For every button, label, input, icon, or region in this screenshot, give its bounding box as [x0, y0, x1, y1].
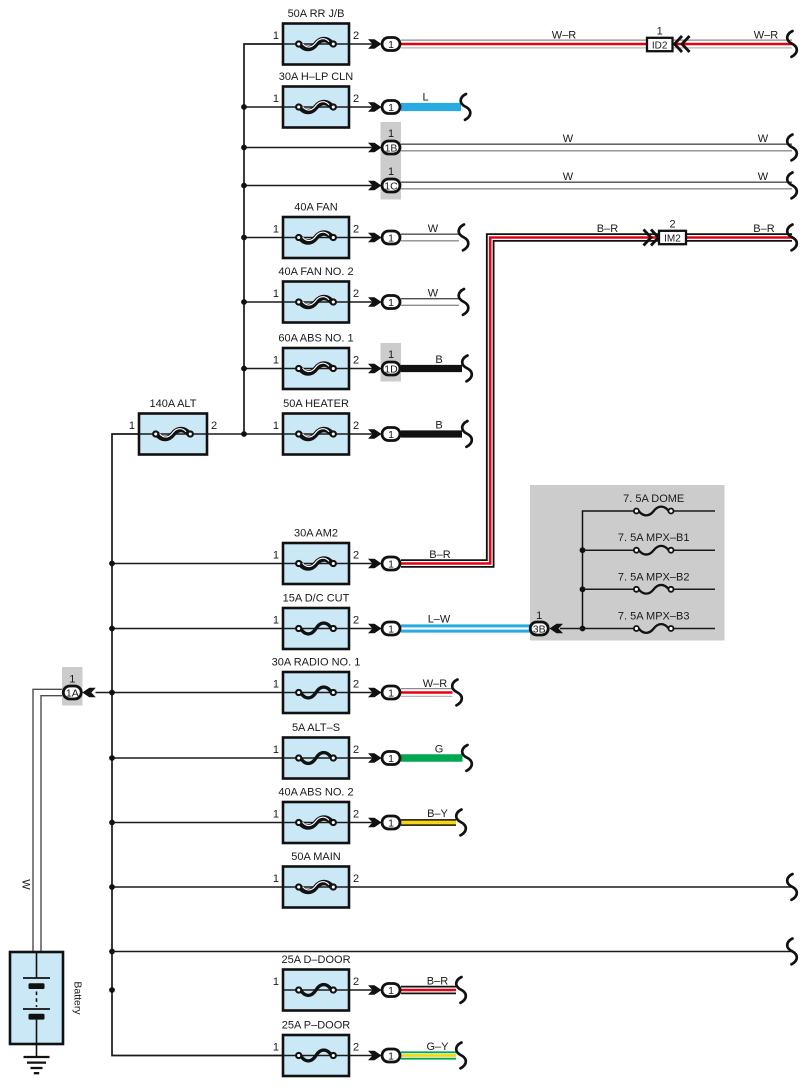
wire 40A FAN pin2 to output connector — [349, 237, 379, 239]
arrow into connector 1 (RADIO) — [368, 688, 382, 698]
arrow into connector 1 (FAN) — [368, 233, 382, 243]
fuse 60A ABS NO. 1 — [273, 333, 359, 390]
wire G-Y P-DOOR output — [401, 1051, 456, 1059]
wire break W-R end — [787, 31, 797, 57]
wire feed connector 1C — [244, 185, 379, 187]
svg-text:W: W — [758, 171, 769, 183]
wire feed 30A AM2 — [112, 563, 283, 565]
connector 1 (ABS NO. 2) — [382, 816, 400, 829]
svg-text:2: 2 — [353, 30, 359, 42]
wire 25A D-DOOR pin2 to output connector — [349, 989, 379, 991]
gray band behind connector 1D — [381, 343, 402, 382]
arrow into connector 1 (D-DOOR) — [368, 985, 382, 995]
svg-text:2: 2 — [353, 873, 359, 885]
svg-text:2: 2 — [353, 420, 359, 432]
svg-text:30A RADIO NO. 1: 30A RADIO NO. 1 — [272, 657, 361, 669]
wire bus A (fusible link feed, top) — [244, 44, 283, 434]
svg-text:1D: 1D — [384, 363, 398, 375]
wire through fuse 7. 5A MPX–B1 — [674, 549, 716, 551]
arrow into connector 1A — [82, 688, 96, 698]
chevrons into IM2 — [644, 230, 659, 246]
wire B-R D-DOOR output — [401, 986, 456, 995]
svg-text:1: 1 — [273, 744, 279, 756]
junction on bus B — [109, 626, 115, 632]
wire W-R RADIO output — [401, 688, 453, 690]
arrow into connector 1D — [368, 364, 382, 374]
svg-text:140A ALT: 140A ALT — [150, 398, 197, 410]
chevrons out of ID2 — [675, 36, 690, 52]
wire break W end (FAN) — [459, 225, 469, 251]
svg-text:1A: 1A — [66, 687, 79, 699]
junction on bus B — [109, 949, 115, 955]
arrow into connector 1 (AM2) — [368, 559, 382, 569]
arrow into connector 1 (H-LP CLN) — [368, 102, 382, 112]
svg-text:1: 1 — [273, 288, 279, 300]
connector 1 (D-DOOR) — [382, 984, 400, 997]
wire through fuse 7. 5A MPX–B2 — [674, 588, 716, 590]
wire break B-R end (D-DOOR) — [456, 977, 466, 1003]
wire break branch end — [787, 939, 797, 965]
wire 30A RADIO NO. 1 pin2 to output connector — [349, 692, 379, 694]
junction on bus A — [241, 431, 247, 437]
fuse 25A P-DOOR — [273, 1020, 359, 1077]
wire break W end (1C row) — [787, 173, 797, 199]
junction on bus B — [109, 884, 115, 890]
svg-text:50A MAIN: 50A MAIN — [291, 851, 341, 863]
wire break B end (HEATER) — [462, 421, 472, 447]
junction on bus B — [109, 755, 115, 761]
wire B ABS NO. 1 output — [401, 365, 462, 372]
svg-text:1: 1 — [388, 166, 394, 178]
wire break W end (1B row) — [787, 135, 797, 161]
arrow into connector 1 (ALT-S) — [368, 753, 382, 763]
connector IM2 — [659, 231, 686, 245]
fuse 7. 5A MPX–B1 — [618, 532, 690, 554]
connector 1 (AM2) — [382, 557, 400, 570]
svg-text:2: 2 — [211, 420, 217, 432]
wire branch to 7. 5A MPX–B3 — [583, 628, 636, 630]
svg-text:G–Y: G–Y — [426, 1041, 449, 1053]
svg-text:1: 1 — [388, 817, 394, 829]
svg-text:L–W: L–W — [428, 614, 451, 626]
junction on bus A — [241, 299, 247, 305]
svg-text:1: 1 — [273, 93, 279, 105]
junction on bus B — [109, 690, 115, 696]
wire 25A P-DOOR pin2 to output connector — [349, 1055, 379, 1057]
svg-text:1: 1 — [388, 1050, 394, 1062]
svg-text:15A D/C CUT: 15A D/C CUT — [283, 593, 350, 605]
arrow into connector 1 (ABS NO. 2) — [368, 818, 382, 828]
svg-text:40A FAN NO. 2: 40A FAN NO. 2 — [278, 266, 353, 278]
svg-text:W: W — [428, 223, 439, 235]
wire feed 50A MAIN — [112, 886, 283, 888]
svg-text:IM2: IM2 — [664, 234, 681, 245]
connector 1 (P-DOOR) — [382, 1049, 400, 1062]
svg-text:1: 1 — [388, 753, 394, 765]
connector ID2 — [647, 38, 673, 52]
connector 3B — [530, 622, 548, 635]
wire break W end (FAN NO. 2) — [459, 289, 469, 315]
fuse 30A H-LP CLN — [273, 71, 359, 128]
arrow into connector 1 (FAN NO. 2) — [368, 297, 382, 307]
svg-text:2: 2 — [353, 744, 359, 756]
wire break MAIN output end — [787, 874, 797, 900]
svg-text:1: 1 — [273, 679, 279, 691]
wire 50A MAIN output (plain) — [349, 886, 792, 888]
connector 1 (RADIO) — [382, 686, 400, 699]
connector 1 (HEATER) — [382, 428, 400, 441]
fuse 7. 5A MPX–B2 — [618, 571, 690, 593]
svg-text:1: 1 — [388, 232, 394, 244]
wire battery branch (plain, to right) — [112, 951, 792, 953]
svg-text:50A HEATER: 50A HEATER — [283, 398, 349, 410]
connector 1 (H-LP CLN) — [382, 101, 400, 114]
wire feed 30A H-LP CLN — [244, 106, 283, 108]
wire feed 30A RADIO NO. 1 and connector 1A — [96, 692, 284, 694]
svg-text:3B: 3B — [533, 623, 546, 635]
svg-text:40A ABS NO. 2: 40A ABS NO. 2 — [278, 787, 353, 799]
wire feed 15A D/C CUT — [112, 628, 283, 630]
fuse 15A D/C CUT — [273, 593, 359, 650]
connector 1B — [382, 141, 400, 154]
svg-text:W–R: W–R — [423, 678, 448, 690]
svg-text:1: 1 — [388, 297, 394, 309]
junction on bus B — [109, 987, 115, 993]
svg-text:ID2: ID2 — [652, 41, 668, 52]
svg-text:W–R: W–R — [552, 30, 577, 42]
svg-text:40A FAN: 40A FAN — [294, 202, 337, 214]
fuse 50A RR J/B — [273, 8, 359, 65]
svg-text:1: 1 — [388, 985, 394, 997]
wire 40A FAN NO. 2 pin2 to output connector — [349, 301, 379, 303]
wire 60A ABS NO. 1 pin2 to output connector — [349, 368, 379, 370]
svg-text:Battery: Battery — [72, 981, 84, 1015]
wire feed 60A ABS NO. 1 — [244, 368, 283, 370]
wire feed 5A ALT-S — [112, 757, 283, 759]
svg-text:W–R: W–R — [754, 30, 779, 42]
wire feed connector 1B — [244, 147, 379, 149]
connector 1D — [382, 362, 400, 375]
svg-text:1C: 1C — [384, 180, 398, 192]
svg-text:2: 2 — [353, 615, 359, 627]
fuse 50A HEATER — [273, 398, 359, 455]
fuse 50A MAIN — [273, 851, 359, 908]
connector 1 (ALT-S) — [382, 752, 400, 765]
svg-text:L: L — [422, 92, 428, 104]
svg-text:1: 1 — [388, 39, 394, 51]
svg-text:1: 1 — [273, 1042, 279, 1054]
svg-text:1: 1 — [388, 429, 394, 441]
svg-text:B–R: B–R — [427, 976, 448, 988]
junction in junction block — [580, 586, 586, 592]
battery — [10, 952, 84, 1044]
junction on bus B — [109, 561, 115, 567]
svg-text:1: 1 — [273, 615, 279, 627]
wire feed 50A HEATER — [244, 433, 283, 435]
svg-text:25A D–DOOR: 25A D–DOOR — [281, 954, 350, 966]
svg-text:5A ALT–S: 5A ALT–S — [292, 722, 340, 734]
svg-text:60A ABS NO. 1: 60A ABS NO. 1 — [278, 333, 353, 345]
wire G ALT-S output — [401, 754, 463, 761]
fuse 25A D-DOOR — [273, 954, 359, 1011]
svg-text:2: 2 — [669, 219, 675, 231]
wire internal bus of junction block — [583, 511, 636, 629]
wire branch to 7. 5A MPX–B2 — [583, 588, 636, 590]
fuse 40A FAN — [273, 202, 359, 259]
wire through fuse 7. 5A MPX–B3 — [674, 628, 716, 630]
arrow into connector 1 (D/C CUT) — [368, 624, 382, 634]
svg-text:1: 1 — [273, 550, 279, 562]
gray band behind connectors 1B and 1C — [381, 122, 402, 200]
svg-text:2: 2 — [353, 288, 359, 300]
junction on bus A — [241, 145, 247, 151]
wire break W-R end (RADIO) — [452, 680, 462, 706]
svg-text:W: W — [428, 288, 439, 300]
connector 1 (RR J/B) — [382, 38, 400, 51]
wire feed 40A FAN NO. 2 — [244, 301, 283, 303]
fuse 40A FAN NO. 2 — [273, 266, 359, 323]
ground — [24, 1044, 50, 1073]
fuse 7. 5A DOME — [623, 493, 684, 515]
fuse 30A AM2 — [273, 528, 359, 585]
svg-text:1: 1 — [129, 420, 135, 432]
wire 3B to junction block — [560, 628, 583, 630]
wire W FAN output — [401, 233, 459, 235]
svg-text:50A RR J/B: 50A RR J/B — [288, 8, 345, 20]
wire W from 1B — [401, 143, 792, 145]
wire break L end — [461, 94, 471, 120]
svg-text:1: 1 — [273, 30, 279, 42]
wire feed 40A FAN — [244, 237, 283, 239]
wire W from 1A to battery (double line) — [33, 689, 62, 952]
connector 1 (D/C CUT) — [382, 622, 400, 635]
svg-text:2: 2 — [353, 809, 359, 821]
wire through fuse 7. 5A DOME — [674, 510, 716, 512]
wire break B-R right end — [787, 225, 797, 251]
svg-text:1: 1 — [388, 687, 394, 699]
svg-text:1: 1 — [388, 349, 394, 361]
svg-text:2: 2 — [353, 93, 359, 105]
svg-text:30A AM2: 30A AM2 — [294, 528, 338, 540]
svg-text:B: B — [435, 420, 442, 432]
wire 5A ALT-S pin2 to output connector — [349, 757, 379, 759]
svg-text:B–R: B–R — [429, 549, 450, 561]
svg-text:1: 1 — [273, 224, 279, 236]
svg-text:W: W — [758, 133, 769, 145]
arrow into connector 1 (RR J/B) — [368, 39, 382, 49]
svg-text:1: 1 — [273, 873, 279, 885]
svg-text:1: 1 — [69, 674, 75, 686]
svg-text:7. 5A MPX–B2: 7. 5A MPX–B2 — [618, 571, 690, 583]
junction in junction block — [580, 547, 586, 553]
wire L-W D/C CUT to 3B — [401, 624, 530, 632]
wire 140A ALT pin2 to bus A — [207, 433, 244, 435]
connector 1 (FAN NO. 2) — [382, 296, 400, 309]
svg-text:1: 1 — [388, 623, 394, 635]
gray band behind connector 1A — [62, 667, 83, 706]
wire feed 40A ABS NO. 2 — [112, 822, 283, 824]
svg-text:B–R: B–R — [753, 223, 774, 235]
wire break B end (ABS NO. 1) — [462, 356, 472, 382]
svg-text:1: 1 — [388, 558, 394, 570]
connector 1A — [63, 686, 81, 699]
junction on bus A — [241, 104, 247, 110]
wire break B-Y end — [456, 810, 466, 836]
junction on bus B — [109, 820, 115, 826]
junction in junction block — [580, 626, 586, 632]
arrow into connector 1 (HEATER) — [368, 429, 382, 439]
arrow into connector 1C — [368, 181, 382, 191]
svg-text:2: 2 — [353, 976, 359, 988]
svg-text:2: 2 — [353, 550, 359, 562]
svg-text:1: 1 — [273, 976, 279, 988]
svg-text:W: W — [563, 171, 574, 183]
svg-text:7. 5A MPX–B1: 7. 5A MPX–B1 — [618, 532, 690, 544]
svg-text:7. 5A MPX–B3: 7. 5A MPX–B3 — [618, 611, 690, 623]
wire bus B (battery feed, left) — [112, 434, 283, 1056]
svg-text:2: 2 — [353, 1042, 359, 1054]
wire 15A D/C CUT pin2 to output connector — [349, 628, 379, 630]
svg-text:1: 1 — [273, 355, 279, 367]
wire B HEATER output — [401, 430, 462, 437]
wire W from 1C — [401, 181, 792, 183]
wire W-R RR J/B output — [401, 39, 792, 41]
wire B-Y ABS NO. 2 output — [401, 819, 456, 826]
svg-text:2: 2 — [353, 355, 359, 367]
svg-text:B–R: B–R — [597, 223, 618, 235]
svg-text:30A H–LP CLN: 30A H–LP CLN — [279, 71, 353, 83]
arrow into connector 1 (P-DOOR) — [368, 1051, 382, 1061]
fuse 7. 5A MPX–B3 — [618, 611, 690, 633]
wire 30A AM2 pin2 to output connector — [349, 563, 379, 565]
fuse 30A RADIO NO. 1 — [272, 657, 361, 714]
svg-text:G: G — [435, 744, 444, 756]
svg-text:1: 1 — [536, 610, 542, 622]
svg-text:7. 5A DOME: 7. 5A DOME — [623, 493, 684, 505]
wire branch to 7. 5A MPX–B1 — [583, 549, 636, 551]
wire 50A RR J/B pin2 to output connector — [349, 43, 379, 45]
connector 1C — [382, 179, 400, 192]
svg-text:25A P–DOOR: 25A P–DOOR — [282, 1020, 351, 1032]
svg-text:1: 1 — [273, 420, 279, 432]
arrow into connector 1B — [368, 143, 382, 153]
connector 1 (FAN) — [382, 231, 400, 244]
junction on bus A — [241, 183, 247, 189]
wire B-R net: 30A AM2 output up and right to IM2 — [401, 238, 792, 564]
svg-text:2: 2 — [353, 224, 359, 236]
fuse 40A ABS NO. 2 — [273, 787, 359, 844]
svg-text:2: 2 — [353, 679, 359, 691]
svg-text:1: 1 — [388, 102, 394, 114]
junction on bus A — [241, 235, 247, 241]
svg-text:W: W — [20, 879, 32, 890]
wire break G end — [462, 745, 472, 771]
wire 40A ABS NO. 2 pin2 to output connector — [349, 822, 379, 824]
gray panel (junction block with 7.5A fuses) — [530, 485, 725, 641]
wire 30A H-LP CLN pin2 to output connector — [349, 106, 379, 108]
svg-text:1: 1 — [273, 809, 279, 821]
wire break G-Y end — [456, 1043, 466, 1069]
junction on bus A — [241, 366, 247, 372]
fuse 5A ALT-S — [273, 722, 359, 779]
svg-text:1: 1 — [657, 26, 663, 38]
svg-text:1: 1 — [388, 128, 394, 140]
fusible link 140A ALT — [129, 398, 217, 455]
wire W FAN NO. 2 output — [401, 298, 459, 300]
wire L H-LP CLN output — [401, 103, 461, 111]
arrow into connector 3B — [550, 624, 564, 634]
svg-text:1B: 1B — [385, 142, 398, 154]
svg-text:W: W — [563, 133, 574, 145]
svg-text:B: B — [435, 354, 442, 366]
svg-text:B–Y: B–Y — [427, 808, 448, 820]
wire 50A HEATER pin2 to output connector — [349, 433, 379, 435]
